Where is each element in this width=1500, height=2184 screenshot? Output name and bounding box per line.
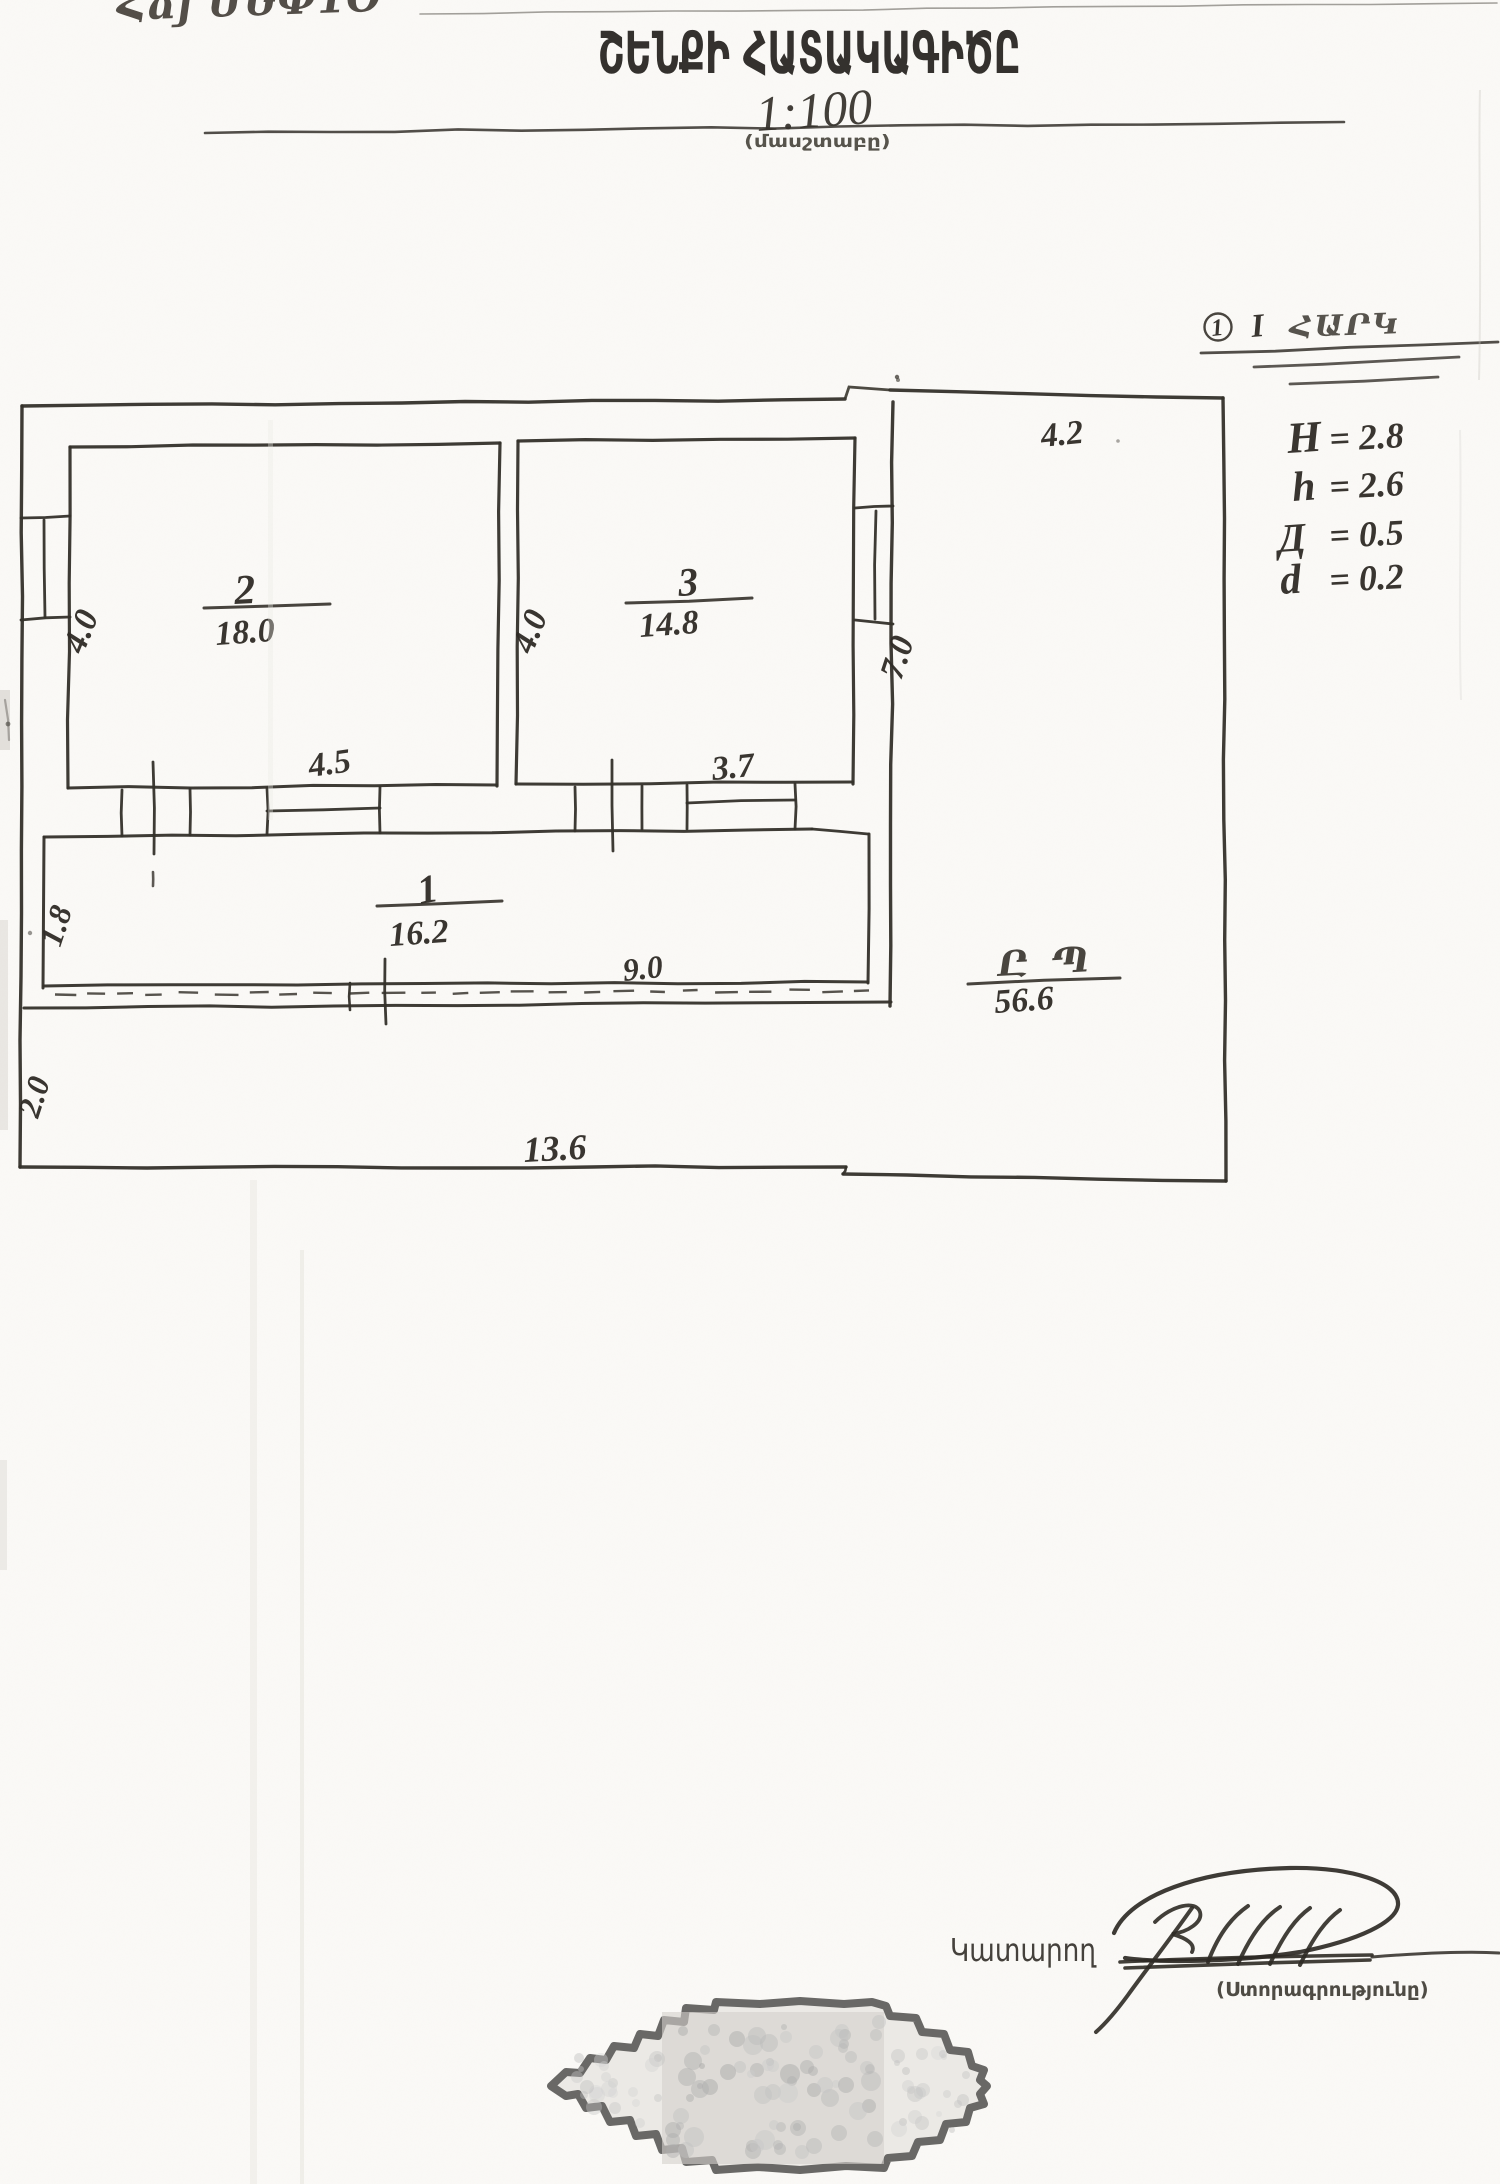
scan streaks and speckles (250, 1180, 257, 2184)
total fraction line (968, 978, 1120, 984)
handwritten top-left fragment (cut off) (115, 0, 381, 29)
signature zigzag strokes (1208, 1906, 1340, 1965)
window W2 (room 3 east): top cap (855, 506, 893, 508)
corridor height 1.8 (rotated) (32, 901, 79, 950)
band window rect right edge (room3) (795, 784, 796, 829)
band window rect left edge (267, 788, 268, 834)
plot height 2.0 (rotated) (10, 1072, 57, 1122)
room 2 right wall (497, 443, 500, 786)
corridor fraction line (377, 901, 502, 906)
room 3 right wall (853, 438, 855, 784)
total area 56.6 (993, 980, 1055, 1021)
corridor bottom inner wall (44, 981, 868, 986)
plot outline: top wall right span (890, 390, 1223, 398)
signature tail to right edge (1372, 1952, 1499, 1957)
signature baseline double stroke (1120, 1955, 1372, 1968)
legend h = 2.6 (1290, 463, 1317, 511)
plot outline: left wall (20, 406, 23, 1167)
stamp central band (662, 2012, 884, 2164)
corridor top wall (44, 829, 812, 837)
room 3 height 4.0 (rotated) (505, 605, 556, 659)
stamp outline (jagged plaque) (551, 2001, 987, 2170)
window W1 (room 2 west): top cap (21, 516, 70, 518)
svg-text:d: d (1278, 557, 1303, 604)
corridor left wall (43, 837, 44, 988)
legend d = 0.2 (1278, 557, 1303, 604)
window W1 middle pane line (44, 520, 45, 617)
band long tick a2 (153, 762, 154, 854)
svg-text:= 0.2: = 0.2 (1328, 556, 1405, 600)
room 3 fraction line (626, 598, 752, 603)
faint right margin streaks (1479, 90, 1480, 380)
svg-text:3: 3 (675, 559, 699, 605)
corridor area 16.2 (388, 913, 450, 954)
small mark below tick a2 (152, 872, 155, 886)
underline 1 (1201, 342, 1498, 353)
svg-text:1:100: 1:100 (754, 78, 874, 142)
window W2 middle pane line (875, 511, 876, 619)
building right wall (890, 402, 893, 1006)
underline 3 (1290, 377, 1438, 384)
svg-text:= 2.8: = 2.8 (1328, 415, 1405, 459)
plot outline: bottom left span (20, 1166, 846, 1168)
underline 2 (1254, 357, 1459, 367)
room 2 height 4.0 (rotated) (56, 605, 107, 659)
Կատարող label (952, 1938, 1096, 1968)
svg-text:18.0: 18.0 (214, 612, 276, 653)
floor number note: circled 1, I ՀԱՐԿ (1205, 314, 1232, 341)
signature flourish: big loop (1114, 1868, 1398, 1961)
(մասշտաբը) caption (746, 134, 889, 151)
corridor width 9.0 (621, 948, 665, 988)
corridor number 1 (414, 865, 442, 913)
room 2 fraction line (204, 604, 330, 608)
room 2 top wall (70, 443, 500, 447)
svg-text:13.6: 13.6 (522, 1127, 587, 1170)
svg-text:4.5: 4.5 (305, 742, 353, 785)
room 3 width 3.7 (709, 747, 758, 789)
plot outline: bottom step (843, 1167, 846, 1174)
svg-text:9.0: 9.0 (621, 948, 665, 988)
stamp inner texture (729, 2031, 745, 2047)
svg-text:h: h (1290, 463, 1317, 511)
scale figure 1:100 (754, 78, 874, 142)
band tick b3 (641, 786, 644, 829)
corridor short tick (348, 983, 351, 1010)
corridor bottom outer wall (24, 1002, 891, 1008)
plot width 13.6 (522, 1127, 587, 1170)
room 2 area 18.0 (214, 612, 276, 653)
svg-text:= 2.6: = 2.6 (1328, 463, 1405, 507)
room 3 left wall (516, 441, 518, 784)
room 3 top wall (518, 438, 855, 441)
horizontal rule under scale (205, 122, 1344, 133)
room 3 area 14.8 (638, 604, 700, 645)
title: ՇԵՆՔԻ ՀԱՏԱԿԱԳԻԾԸ (600, 30, 1018, 76)
svg-text:14.8: 14.8 (638, 604, 700, 645)
(Ստորագրությունը) caption (1218, 1981, 1427, 2000)
window W1 bottom cap (21, 617, 70, 620)
svg-text:H: H (1284, 412, 1324, 463)
room 2 left wall (68, 447, 71, 788)
band window rect mid line (room3) (687, 800, 795, 803)
corridor right inner wall (868, 834, 869, 983)
band window rect mid line (267, 808, 380, 811)
total label Ը Պ (996, 946, 1087, 979)
svg-text:56.6: 56.6 (993, 980, 1055, 1021)
corridor bottom wall hatching dashes (55, 990, 869, 995)
small dot above plan (895, 375, 899, 379)
signature initial curl (1155, 1905, 1200, 1952)
plot outline: right wall (1223, 398, 1226, 1181)
room 2 width 4.5 (305, 742, 353, 785)
band window rect left edge (room3) (686, 785, 689, 829)
corridor long tick (385, 959, 386, 1024)
window W2 bottom cap (855, 620, 893, 624)
band long tick b2 (612, 760, 613, 851)
svg-text:4.2: 4.2 (1038, 414, 1085, 455)
svg-text:3.7: 3.7 (709, 747, 758, 789)
band window rect right edge (378, 787, 381, 833)
plot outline: bottom right span (843, 1174, 1226, 1181)
plot outline: top wall left span (22, 399, 845, 406)
band tick a3 (189, 789, 192, 835)
signature descender stroke (1096, 1908, 1192, 2032)
svg-text:16.2: 16.2 (388, 913, 450, 954)
room 3 number (675, 559, 699, 605)
legend H = 2.8 (1284, 412, 1324, 463)
band tick a1 (120, 790, 124, 836)
band tick b1 (574, 787, 577, 831)
faint pen line across top (420, 3, 1497, 14)
room 2 number (232, 567, 256, 614)
legend Д = 0.5 (1272, 514, 1308, 561)
rooms bottom wall (band top) left (68, 785, 497, 789)
plot outline: top wall jog (845, 387, 890, 399)
yard height 7.0 (rotated) (873, 632, 921, 684)
svg-text:= 0.5: = 0.5 (1328, 512, 1405, 556)
rooms bottom wall (band top) right (516, 782, 853, 784)
yard width 4.2 (1038, 414, 1085, 455)
